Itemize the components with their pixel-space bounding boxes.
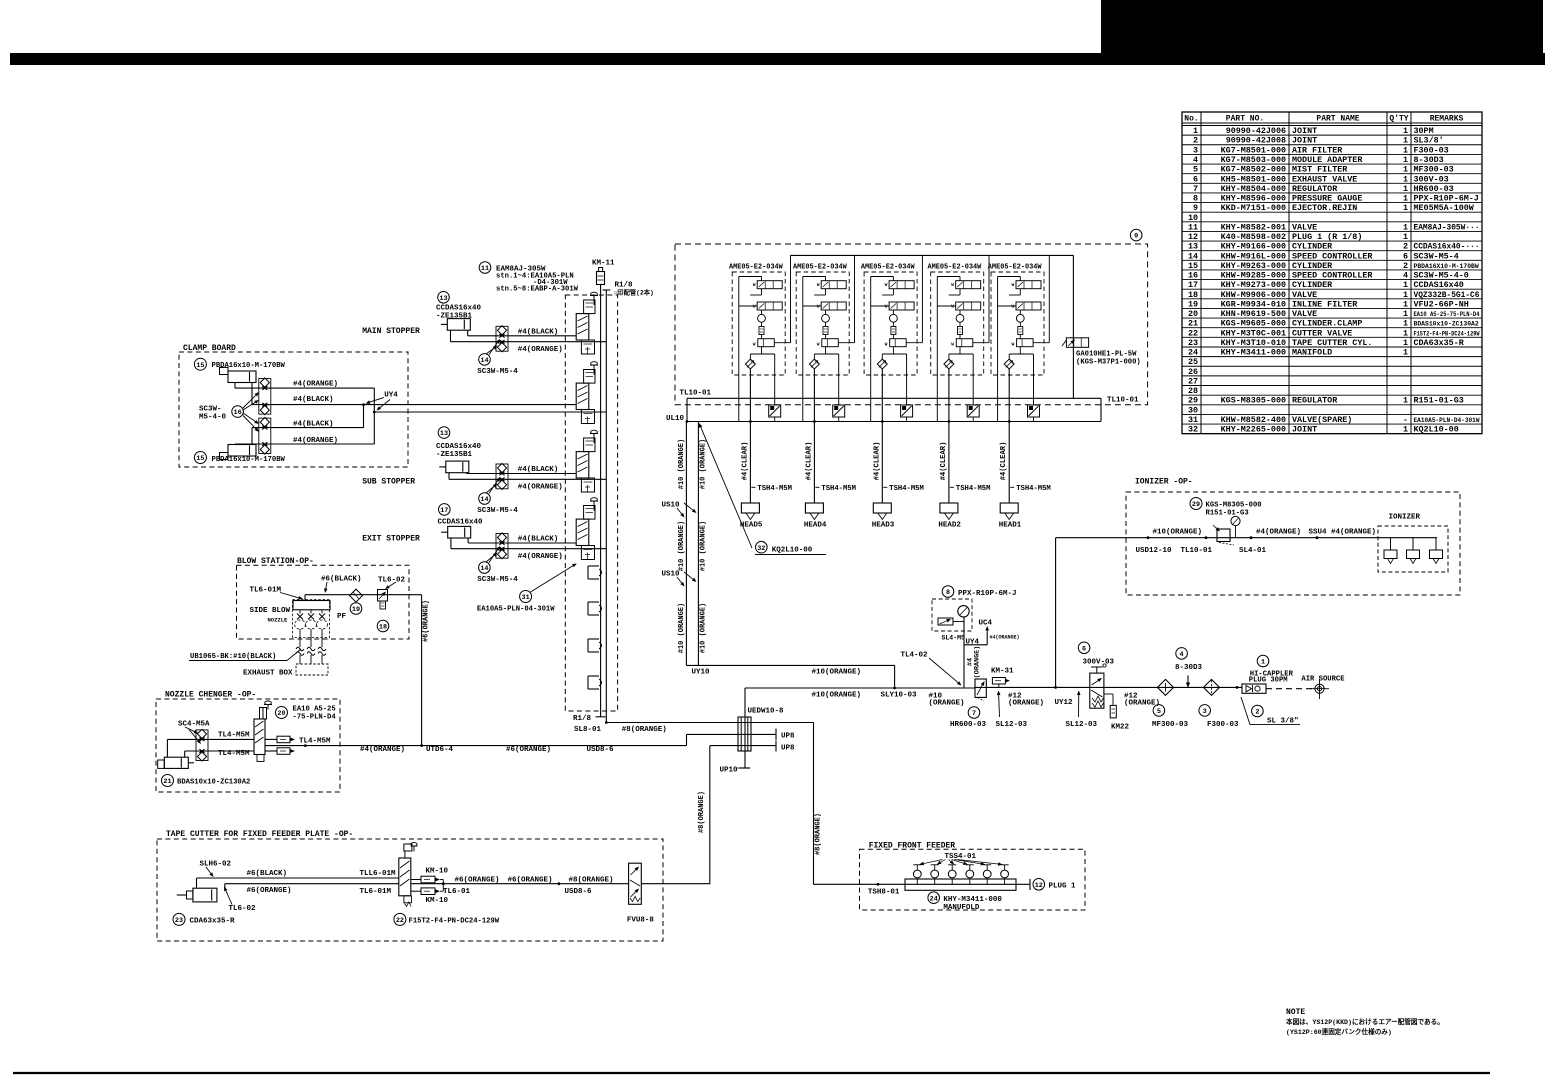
svg-text:11: 11 (1188, 222, 1198, 232)
svg-text:TAPE CUTTER CYL.: TAPE CUTTER CYL. (1292, 338, 1372, 348)
svg-text:19: 19 (1188, 299, 1198, 309)
svg-text:KQ2L10-00: KQ2L10-00 (772, 547, 813, 555)
svg-text:1: 1 (1403, 174, 1408, 184)
svg-text:CCDAS16x40: CCDAS16x40 (436, 305, 482, 313)
svg-text:8: 8 (946, 589, 950, 597)
svg-text:ME05M5A-100W: ME05M5A-100W (1414, 203, 1475, 213)
svg-text:SL12-03: SL12-03 (1066, 721, 1098, 729)
svg-text:#4(ORANGE): #4(ORANGE) (990, 635, 1020, 641)
svg-text:BDAS10x10-ZC130A2: BDAS10x10-ZC130A2 (1414, 321, 1479, 328)
svg-text:F300-03: F300-03 (1414, 145, 1449, 155)
svg-text:REMARKS: REMARKS (1430, 114, 1464, 123)
svg-text:16: 16 (234, 409, 242, 417)
svg-text:KHN-M9619-500: KHN-M9619-500 (1221, 309, 1286, 319)
svg-text:KHW-M9906-000: KHW-M9906-000 (1221, 290, 1286, 300)
svg-text:BLOW STATION-OP-: BLOW STATION-OP- (237, 557, 314, 566)
svg-text:SC3W-M5-4: SC3W-M5-4 (477, 576, 518, 584)
svg-text:SL8-01: SL8-01 (574, 726, 602, 734)
svg-text:W: W (885, 282, 888, 288)
svg-text:#4(ORANGE): #4(ORANGE) (1256, 528, 1301, 536)
svg-text:(ORANGE): (ORANGE) (1008, 699, 1044, 707)
svg-text:#4(ORANGE): #4(ORANGE) (1331, 528, 1376, 536)
svg-text:VFU2-66P-NH: VFU2-66P-NH (1414, 299, 1469, 309)
svg-text:8: 8 (1193, 194, 1198, 204)
svg-text:W: W (753, 341, 756, 347)
svg-text:JOINT: JOINT (1292, 126, 1317, 136)
svg-text:1: 1 (1403, 184, 1408, 194)
svg-text:24: 24 (1188, 348, 1198, 358)
svg-text:KHY-M9166-000: KHY-M9166-000 (1221, 242, 1286, 252)
svg-text:PART NO.: PART NO. (1226, 114, 1264, 123)
svg-text:15: 15 (196, 362, 204, 370)
svg-text:KHY-M8504-000: KHY-M8504-000 (1221, 184, 1286, 194)
svg-text:TL4-M5M: TL4-M5M (218, 750, 250, 758)
svg-text:EA10A5-PLN-04-301W: EA10A5-PLN-04-301W (477, 606, 555, 614)
svg-text:EJECTOR.REJIN: EJECTOR.REJIN (1292, 203, 1357, 213)
svg-text:EA10 A5-25: EA10 A5-25 (293, 705, 336, 713)
svg-text:25: 25 (1188, 357, 1198, 367)
svg-text:SC3W-M5-4-0: SC3W-M5-4-0 (1414, 271, 1469, 281)
svg-text:CDA63x35-R: CDA63x35-R (1414, 338, 1465, 348)
svg-text:KG7-M8501-000: KG7-M8501-000 (1221, 145, 1286, 155)
svg-text:TL6-02: TL6-02 (378, 576, 406, 584)
svg-text:PLUG 1: PLUG 1 (1049, 882, 1077, 890)
svg-text:UP10: UP10 (720, 766, 739, 774)
svg-text:1: 1 (1261, 659, 1265, 667)
svg-text:SL4-01: SL4-01 (1239, 547, 1267, 555)
svg-text:VALVE: VALVE (1292, 309, 1317, 319)
svg-text:#4(ORANGE): #4(ORANGE) (518, 553, 563, 561)
svg-text:KHY-M8582-001: KHY-M8582-001 (1221, 222, 1286, 232)
svg-text:#8(ORANGE): #8(ORANGE) (569, 876, 614, 884)
svg-text:(ORANGE): (ORANGE) (974, 646, 982, 679)
svg-text:5: 5 (1193, 165, 1198, 175)
svg-text:1: 1 (1403, 155, 1408, 165)
svg-text:HR600-03: HR600-03 (950, 721, 987, 729)
svg-text:-: - (1403, 415, 1408, 425)
svg-text:1: 1 (1403, 280, 1408, 290)
svg-text:VALVE(SPARE): VALVE(SPARE) (1292, 415, 1352, 425)
svg-text:BDAS10x10-ZC130A2: BDAS10x10-ZC130A2 (177, 779, 250, 787)
svg-text:9: 9 (1134, 233, 1138, 241)
svg-text:JOINT: JOINT (1292, 425, 1317, 435)
svg-text:90990-42J008: 90990-42J008 (1226, 136, 1286, 146)
svg-text:W: W (817, 341, 820, 347)
svg-text:PRESSURE GAUGE: PRESSURE GAUGE (1292, 194, 1362, 204)
svg-text:32: 32 (1188, 425, 1198, 435)
svg-text:14: 14 (480, 565, 488, 573)
svg-text:2: 2 (1193, 136, 1198, 146)
svg-text:R151-01-G3: R151-01-G3 (1414, 396, 1464, 406)
svg-text:1: 1 (1403, 396, 1408, 406)
svg-text:M5-4-0: M5-4-0 (199, 413, 227, 421)
svg-text:#10 (ORANGE): #10 (ORANGE) (700, 439, 708, 489)
svg-text:#4(ORANGE): #4(ORANGE) (518, 483, 563, 491)
svg-text:TL4-M5M: TL4-M5M (299, 737, 331, 745)
svg-text:stn.5~8:EABP-A-301W: stn.5~8:EABP-A-301W (496, 286, 579, 294)
svg-text:31: 31 (522, 594, 530, 602)
svg-text:#4(BLACK): #4(BLACK) (293, 420, 334, 428)
svg-text:NOZZLE CHENGER -OP-: NOZZLE CHENGER -OP- (165, 690, 256, 699)
svg-text:UP8: UP8 (781, 733, 795, 741)
svg-text:REGULATOR: REGULATOR (1292, 396, 1338, 406)
svg-text:1: 1 (1403, 338, 1408, 348)
svg-text:13: 13 (1188, 242, 1198, 252)
svg-text:CCDAS16x40-···: CCDAS16x40-··· (1414, 242, 1480, 252)
svg-text:SUB STOPPER: SUB STOPPER (362, 478, 415, 487)
svg-text:W: W (1012, 282, 1015, 288)
svg-text:KGS-M8305-000: KGS-M8305-000 (1221, 396, 1286, 406)
svg-text:MAIN STOPPER: MAIN STOPPER (362, 327, 420, 336)
svg-text:1: 1 (1403, 309, 1408, 319)
svg-text:MANUFOLD: MANUFOLD (943, 904, 980, 912)
svg-text:SC3W-M5-4: SC3W-M5-4 (1414, 251, 1459, 261)
svg-text:29: 29 (1188, 396, 1198, 406)
svg-text:KHY-M3T10-010: KHY-M3T10-010 (1221, 338, 1286, 348)
svg-text:13: 13 (439, 295, 447, 303)
svg-text:18: 18 (1188, 290, 1198, 300)
svg-text:#10 (ORANGE): #10 (ORANGE) (678, 521, 686, 571)
svg-text:(KGS-M37P1-000): (KGS-M37P1-000) (1076, 359, 1141, 367)
svg-text:1: 1 (1403, 232, 1408, 242)
svg-text:R1/8: R1/8 (615, 282, 634, 290)
svg-text:SPEED CONTROLLER: SPEED CONTROLLER (1292, 251, 1373, 261)
svg-text:23: 23 (1188, 338, 1198, 348)
svg-text:HEAD2: HEAD2 (938, 522, 961, 530)
svg-text:HEAD4: HEAD4 (804, 522, 827, 530)
svg-text:-75-PLN-D4: -75-PLN-D4 (293, 713, 337, 721)
svg-text:10: 10 (1188, 213, 1198, 223)
svg-text:KHW-M9285-000: KHW-M9285-000 (1221, 271, 1286, 281)
svg-text:14: 14 (480, 357, 488, 365)
svg-text:SC3W-: SC3W- (199, 405, 222, 413)
svg-text:SC4-M5A: SC4-M5A (178, 720, 210, 728)
svg-text:#4(ORANGE): #4(ORANGE) (293, 381, 338, 389)
svg-text:UTD6-4: UTD6-4 (426, 746, 454, 754)
svg-text:TSH4-M5M: TSH4-M5M (889, 485, 924, 493)
svg-text:MODULE ADAPTER: MODULE ADAPTER (1292, 155, 1363, 165)
svg-text:TL6-01M: TL6-01M (360, 888, 392, 896)
svg-text:#10 (ORANGE): #10 (ORANGE) (700, 521, 708, 571)
svg-text:TLL6-01M: TLL6-01M (360, 870, 397, 878)
svg-text:1: 1 (1403, 328, 1408, 338)
svg-text:UEDW10-8: UEDW10-8 (748, 708, 785, 716)
svg-text:#6(ORANGE): #6(ORANGE) (423, 600, 431, 642)
svg-text:#4(BLACK): #4(BLACK) (518, 536, 559, 544)
svg-text:AME05-E2-034W: AME05-E2-034W (928, 263, 983, 271)
svg-text:UY12: UY12 (1055, 699, 1074, 707)
svg-text:SPEED CONTROLLER: SPEED CONTROLLER (1292, 271, 1373, 281)
svg-text:15: 15 (1188, 261, 1198, 271)
svg-text:#4(BLACK): #4(BLACK) (518, 328, 559, 336)
svg-text:KM-11: KM-11 (592, 260, 615, 268)
svg-text:KGS-M8305-000: KGS-M8305-000 (1206, 502, 1262, 510)
svg-text:KHY-M3T0C-001: KHY-M3T0C-001 (1221, 328, 1286, 338)
svg-text:90990-42J006: 90990-42J006 (1226, 126, 1286, 136)
svg-text:KG7-M8503-000: KG7-M8503-000 (1221, 155, 1286, 165)
svg-text:#4(CLEAR): #4(CLEAR) (940, 442, 948, 481)
svg-text:SLH6-02: SLH6-02 (200, 860, 232, 868)
svg-text:F15T2-F4-PN-DC24-129W: F15T2-F4-PN-DC24-129W (1414, 330, 1480, 337)
svg-text:30PM: 30PM (1414, 126, 1434, 136)
svg-text:4: 4 (1180, 651, 1184, 659)
svg-text:MIST FILTER: MIST FILTER (1292, 165, 1348, 175)
svg-text:27: 27 (1188, 376, 1198, 386)
svg-text:TSH8-01: TSH8-01 (868, 888, 900, 896)
svg-text:7: 7 (1193, 184, 1198, 194)
svg-text:UY10: UY10 (692, 669, 711, 677)
svg-text:AIR SOURCE: AIR SOURCE (1301, 675, 1345, 683)
svg-text:28: 28 (1188, 386, 1198, 396)
svg-text:3: 3 (1193, 145, 1198, 155)
svg-text:AME05-E2-034W: AME05-E2-034W (793, 263, 848, 271)
svg-text:#4(ORANGE): #4(ORANGE) (293, 437, 338, 445)
svg-text:REGULATOR: REGULATOR (1292, 184, 1338, 194)
svg-text:#4(CLEAR): #4(CLEAR) (1000, 442, 1008, 481)
svg-text:#10(ORANGE): #10(ORANGE) (812, 669, 862, 677)
svg-text:KH5-M8501-000: KH5-M8501-000 (1221, 174, 1286, 184)
svg-text:CDA63x35-R: CDA63x35-R (190, 918, 236, 926)
svg-text:17: 17 (1188, 280, 1198, 290)
svg-text:PLUG 30PM: PLUG 30PM (1249, 677, 1288, 685)
svg-text:VALVE: VALVE (1292, 290, 1317, 300)
svg-text:W: W (753, 282, 756, 288)
svg-text:#6(ORANGE): #6(ORANGE) (247, 887, 292, 895)
svg-text:CYLINDER: CYLINDER (1292, 261, 1333, 271)
svg-text:30: 30 (1188, 405, 1198, 415)
svg-text:300V-03: 300V-03 (1083, 658, 1115, 666)
svg-text:KGS-M9605-000: KGS-M9605-000 (1221, 319, 1286, 329)
svg-text:KHY-M9273-000: KHY-M9273-000 (1221, 280, 1286, 290)
svg-text:#8(ORANGE): #8(ORANGE) (622, 726, 667, 734)
svg-text:AIR FILTER: AIR FILTER (1292, 145, 1343, 155)
svg-text:#10 (ORANGE): #10 (ORANGE) (700, 603, 708, 653)
svg-text:KHW-M8582-400: KHW-M8582-400 (1221, 415, 1286, 425)
svg-text:#4(CLEAR): #4(CLEAR) (873, 442, 881, 481)
svg-text:12: 12 (1035, 882, 1043, 890)
svg-text:PPX-R10P-6M-J: PPX-R10P-6M-J (958, 590, 1017, 598)
svg-text:TSH4-M5M: TSH4-M5M (1016, 485, 1051, 493)
svg-text:FVU8-8: FVU8-8 (627, 917, 655, 925)
svg-text:PLUG 1 (R 1/8): PLUG 1 (R 1/8) (1292, 232, 1362, 242)
svg-text:HR600-03: HR600-03 (1414, 184, 1454, 194)
svg-text:TL4-M5M: TL4-M5M (218, 732, 250, 740)
svg-text:USD12-10: USD12-10 (1136, 547, 1173, 555)
svg-text:-ZE135B1: -ZE135B1 (436, 313, 473, 321)
svg-text:#4(CLEAR): #4(CLEAR) (741, 442, 749, 481)
svg-text:#4(ORANGE): #4(ORANGE) (360, 746, 405, 754)
svg-text:MF300-03: MF300-03 (1414, 165, 1454, 175)
svg-text:TL6-01M: TL6-01M (250, 586, 282, 594)
svg-text:KGR-M9934-010: KGR-M9934-010 (1221, 299, 1286, 309)
svg-text:SIDE BLOW: SIDE BLOW (250, 607, 291, 615)
svg-text:32: 32 (757, 545, 765, 553)
svg-text:EA10 A5-25-75-PLN-D4: EA10 A5-25-75-PLN-D4 (1414, 311, 1480, 318)
svg-text:W: W (817, 303, 820, 309)
svg-text:#8(ORANGE): #8(ORANGE) (815, 813, 823, 855)
svg-text:F300-03: F300-03 (1207, 721, 1239, 729)
svg-text:W: W (951, 282, 954, 288)
svg-text:1: 1 (1193, 126, 1198, 136)
svg-text:TL6-01: TL6-01 (443, 888, 471, 896)
svg-text:SL12-03: SL12-03 (996, 721, 1028, 729)
svg-text:USD8-6: USD8-6 (587, 746, 615, 754)
svg-text:SL3/8': SL3/8' (1414, 136, 1444, 146)
svg-text:#6(BLACK): #6(BLACK) (247, 870, 288, 878)
svg-text:1: 1 (1403, 165, 1408, 175)
svg-text:CCDAS16x40: CCDAS16x40 (438, 519, 484, 527)
svg-text:1: 1 (1403, 222, 1408, 232)
svg-text:1: 1 (1403, 145, 1408, 155)
svg-text:31: 31 (1188, 415, 1198, 425)
svg-text:EXHAUST VALVE: EXHAUST VALVE (1292, 174, 1357, 184)
svg-text:PBDA16x10-M-170BW: PBDA16x10-M-170BW (212, 362, 286, 370)
svg-text:NOTE: NOTE (1286, 1008, 1305, 1017)
svg-text:24: 24 (930, 895, 938, 903)
svg-text:JOINT: JOINT (1292, 136, 1317, 146)
svg-text:2: 2 (1255, 709, 1259, 717)
svg-text:26: 26 (1188, 367, 1198, 377)
svg-text:W: W (753, 303, 756, 309)
svg-text:NOZZLE: NOZZLE (268, 617, 289, 624)
svg-text:W: W (951, 303, 954, 309)
svg-text:7: 7 (972, 710, 976, 718)
svg-text:SLY10-03: SLY10-03 (881, 692, 918, 700)
svg-text:KHW-M916L-000: KHW-M916L-000 (1221, 251, 1286, 261)
svg-text:W: W (1012, 341, 1015, 347)
svg-text:9: 9 (1193, 203, 1198, 213)
svg-text:R1/8: R1/8 (573, 715, 592, 723)
svg-text:KM-10: KM-10 (426, 867, 449, 875)
svg-text:15: 15 (196, 455, 204, 463)
svg-text:(YS12P:60連固定バンク仕様のみ): (YS12P:60連固定バンク仕様のみ) (1286, 1027, 1392, 1036)
svg-text:#10(ORANGE): #10(ORANGE) (812, 692, 862, 700)
svg-text:UY4: UY4 (966, 639, 980, 647)
svg-text:PBDA16x10-M-170BW: PBDA16x10-M-170BW (212, 456, 286, 464)
svg-text:#4(CLEAR): #4(CLEAR) (805, 442, 813, 481)
svg-text:本図は、YS12P(KKD)におけるエアー配管図である。: 本図は、YS12P(KKD)におけるエアー配管図である。 (1285, 1017, 1444, 1026)
svg-text:SC3W-M5-4: SC3W-M5-4 (477, 368, 518, 376)
svg-text:#4(BLACK): #4(BLACK) (518, 466, 559, 474)
svg-text:VQZ332B-5G1-C6: VQZ332B-5G1-C6 (1414, 290, 1480, 300)
svg-text:#4(ORANGE): #4(ORANGE) (518, 346, 563, 354)
svg-text:8-30D3: 8-30D3 (1175, 664, 1203, 672)
svg-text:4: 4 (1403, 271, 1408, 281)
svg-text:KHY-M8596-000: KHY-M8596-000 (1221, 194, 1286, 204)
svg-text:TAPE CUTTER FOR FIXED FEEDER P: TAPE CUTTER FOR FIXED FEEDER PLATE -OP- (166, 830, 353, 839)
svg-text:-ZE135B1: -ZE135B1 (436, 451, 473, 459)
svg-text:13: 13 (440, 430, 448, 438)
svg-text:6: 6 (1403, 251, 1408, 261)
svg-text:1: 1 (1403, 290, 1408, 300)
svg-text:SC3W-M5-4: SC3W-M5-4 (477, 507, 518, 515)
svg-text:CCDAS16x40: CCDAS16x40 (436, 443, 482, 451)
svg-text:W: W (817, 282, 820, 288)
svg-text:EAM8AJ-305W···: EAM8AJ-305W··· (1414, 222, 1480, 232)
svg-text:TSH4-M5M: TSH4-M5M (956, 485, 991, 493)
svg-text:11: 11 (481, 265, 489, 273)
svg-text:KM-10: KM-10 (426, 897, 449, 905)
svg-text:EXIT STOPPER: EXIT STOPPER (362, 534, 420, 543)
svg-text:MANIFOLD: MANIFOLD (1292, 348, 1332, 358)
svg-text:UB1065-BK:#10(BLACK): UB1065-BK:#10(BLACK) (190, 653, 276, 661)
svg-text:1: 1 (1403, 136, 1408, 146)
svg-text:2: 2 (1403, 242, 1408, 252)
svg-text:#10 (ORANGE): #10 (ORANGE) (678, 439, 686, 489)
svg-text:#10(ORANGE): #10(ORANGE) (1153, 528, 1203, 536)
svg-text:6: 6 (1082, 645, 1086, 653)
svg-text:KHY-M2265-000: KHY-M2265-000 (1221, 425, 1286, 435)
svg-text:AME05-E2-034W: AME05-E2-034W (861, 263, 916, 271)
svg-text:CYLINDER.CLAMP: CYLINDER.CLAMP (1292, 319, 1362, 329)
svg-text:TL10-01: TL10-01 (1181, 547, 1213, 555)
svg-text:SSU4: SSU4 (1309, 528, 1328, 536)
svg-text:TSH4-M5M: TSH4-M5M (821, 485, 856, 493)
svg-text:1: 1 (1403, 299, 1408, 309)
svg-text:1: 1 (1403, 319, 1408, 329)
svg-text:VALVE: VALVE (1292, 222, 1317, 232)
svg-text:R151-01-G3: R151-01-G3 (1206, 510, 1249, 518)
svg-text:KHY-M3411-000: KHY-M3411-000 (1221, 348, 1286, 358)
svg-text:6: 6 (1193, 174, 1198, 184)
svg-text:4: 4 (1193, 155, 1198, 165)
svg-text:○印配管(2本): ○印配管(2本) (614, 288, 654, 297)
svg-text:TL10-01: TL10-01 (680, 390, 712, 398)
svg-text:#6(ORANGE): #6(ORANGE) (506, 746, 551, 754)
svg-text:22: 22 (1188, 328, 1198, 338)
svg-text:KQ2L10-00: KQ2L10-00 (1414, 425, 1459, 435)
svg-text:3: 3 (1203, 708, 1207, 716)
svg-text:2: 2 (1403, 261, 1408, 271)
svg-text:14: 14 (1188, 251, 1198, 261)
svg-text:No.: No. (1184, 114, 1198, 123)
svg-text:AME05-E2-034W: AME05-E2-034W (729, 263, 784, 271)
svg-text:#8(ORANGE): #8(ORANGE) (698, 791, 706, 833)
svg-text:17: 17 (440, 507, 448, 515)
svg-text:KHY-M3411-000: KHY-M3411-000 (943, 896, 1002, 904)
svg-text:UC4: UC4 (979, 619, 993, 627)
svg-text:W: W (1012, 303, 1015, 309)
svg-text:20: 20 (1188, 309, 1198, 319)
svg-text:1: 1 (1403, 425, 1408, 435)
svg-text:PPX-R10P-6M-J: PPX-R10P-6M-J (1414, 194, 1479, 204)
svg-text:KKD-M7151-000: KKD-M7151-000 (1221, 203, 1286, 213)
svg-text:29: 29 (1192, 501, 1200, 509)
svg-text:UY4: UY4 (384, 392, 398, 400)
svg-text:TL6-02: TL6-02 (229, 905, 257, 913)
svg-text:USD8-6: USD8-6 (565, 888, 593, 896)
svg-text:K40-M8598-002: K40-M8598-002 (1221, 232, 1286, 242)
svg-text:1: 1 (1403, 348, 1408, 358)
svg-text:HEAD3: HEAD3 (872, 522, 895, 530)
svg-text:PF: PF (337, 613, 347, 621)
svg-text:TL4-02: TL4-02 (900, 651, 928, 659)
svg-text:1: 1 (1403, 126, 1408, 136)
svg-text:23: 23 (175, 917, 183, 925)
svg-text:CUTTER VALVE: CUTTER VALVE (1292, 328, 1352, 338)
svg-text:(ORANGE): (ORANGE) (929, 699, 965, 707)
svg-text:TL10-01: TL10-01 (1107, 396, 1139, 404)
svg-text:300V-03: 300V-03 (1414, 174, 1449, 184)
svg-text:KHY-M9263-000: KHY-M9263-000 (1221, 261, 1286, 271)
svg-text:22: 22 (396, 917, 404, 925)
svg-text:IONIZER -OP-: IONIZER -OP- (1135, 478, 1193, 487)
svg-text:KM22: KM22 (1111, 724, 1130, 732)
svg-text:21: 21 (1188, 319, 1198, 329)
svg-text:16: 16 (1188, 271, 1198, 281)
svg-text:1: 1 (1403, 194, 1408, 204)
svg-text:SL 3/8": SL 3/8" (1267, 717, 1299, 725)
